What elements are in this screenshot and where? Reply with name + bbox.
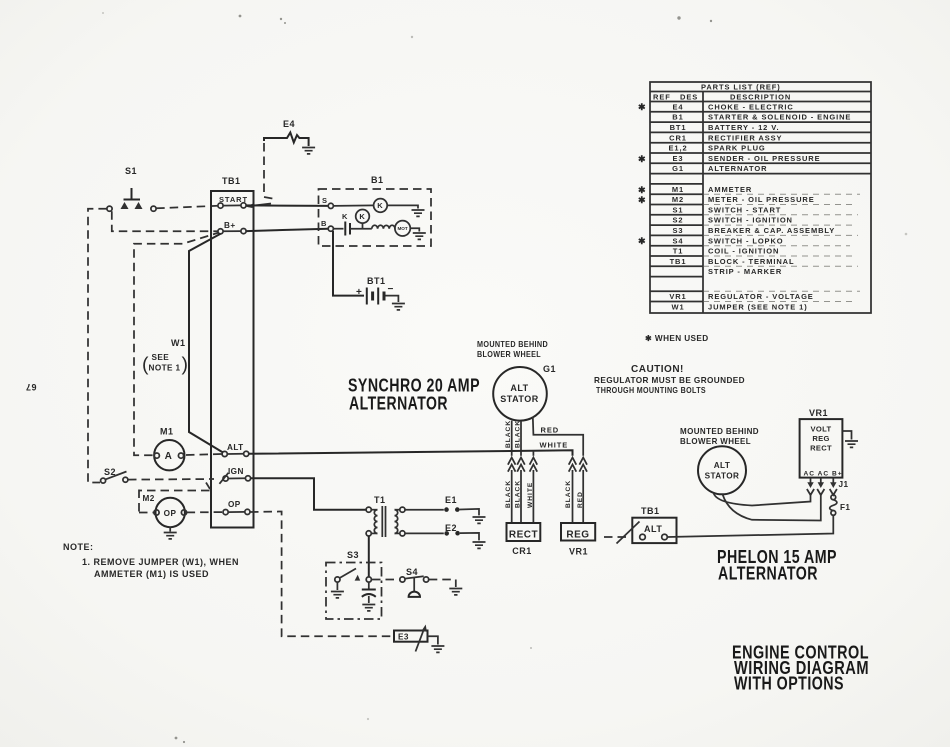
wire M2 to ground	[169, 527, 171, 531]
inductor of B1	[372, 225, 395, 228]
svg-text:THROUGH MOUNTING BOLTS: THROUGH MOUNTING BOLTS	[596, 386, 706, 395]
svg-text:K: K	[359, 212, 365, 221]
svg-text:REG: REG	[566, 529, 589, 540]
relay coil K of B1	[374, 199, 388, 213]
starter & solenoid B1 (dashed box)	[319, 189, 432, 246]
svg-text:M1: M1	[672, 185, 684, 194]
wire chevron to REG 2	[582, 470, 584, 523]
terminal S1 right	[151, 206, 156, 211]
wire M1 to B+ branch (dashed)	[134, 233, 219, 456]
label BLACK (upper 2)	[515, 420, 522, 448]
wire E4 to START (dashed)	[246, 143, 273, 208]
svg-text:B: B	[321, 219, 327, 228]
svg-text:✱: ✱	[638, 102, 646, 112]
resistor E4	[264, 133, 309, 147]
ground in B1 lower	[413, 233, 426, 239]
terminal B+	[218, 221, 246, 234]
svg-text:BLACK: BLACK	[505, 480, 512, 508]
svg-text:B+: B+	[224, 221, 236, 230]
svg-text:S3: S3	[347, 550, 359, 560]
wire TB1 B+ to B1 B	[246, 229, 328, 231]
svg-text:MOUNTED BEHIND: MOUNTED BEHIND	[680, 427, 759, 436]
oil pressure meter M2	[143, 494, 187, 527]
switch S4 (low oil pressure)	[400, 567, 429, 597]
svg-text:ALT: ALT	[510, 383, 528, 393]
wire F1 to phelon TB1 ALT	[667, 515, 833, 537]
wire TB1 START to B1 S	[246, 204, 328, 207]
wire G1 red lead	[533, 417, 583, 456]
label BLACK (upper 1)	[505, 420, 512, 448]
wire T1 primary to S3	[368, 536, 370, 577]
wire E2 to ground	[460, 533, 479, 541]
note text	[63, 542, 239, 579]
svg-text:MOUNTED BEHIND: MOUNTED BEHIND	[477, 340, 548, 349]
svg-text:AC AC B+: AC AC B+	[804, 471, 843, 478]
svg-text:E1: E1	[445, 495, 457, 505]
wire chevron to RECT 3	[532, 470, 534, 523]
wire chevron to RECT 2	[520, 470, 522, 523]
table header	[653, 83, 791, 102]
svg-text:G1: G1	[543, 364, 556, 374]
svg-text:BT1: BT1	[670, 123, 687, 132]
ignition coil T1	[366, 495, 405, 537]
wire M1 to ALT (dashed)	[186, 454, 222, 455]
fuse F1	[830, 493, 851, 515]
svg-text:REG: REG	[812, 434, 829, 443]
wire phelon stator lead 2	[723, 493, 821, 521]
regulator VR1 (synchro)	[561, 523, 595, 557]
breaker points of S3	[335, 569, 372, 583]
svg-text:STATOR: STATOR	[705, 472, 740, 481]
svg-text:STATOR: STATOR	[500, 394, 539, 404]
svg-text:BLACK: BLACK	[505, 420, 512, 448]
svg-text:K: K	[377, 201, 383, 210]
svg-text:ALT: ALT	[644, 524, 662, 534]
svg-text:+: +	[356, 287, 362, 298]
svg-text:SWITCH - LOPKO: SWITCH - LOPKO	[708, 236, 784, 245]
terminal block TB1 (phelon)	[617, 506, 677, 544]
ground at S3 points	[331, 592, 344, 598]
table stars	[638, 102, 646, 246]
wire S1 to TB1 B+ (dashed)	[112, 211, 218, 231]
ground at S3 capacitor	[362, 605, 375, 611]
spark plug E2	[444, 523, 460, 536]
wire S1 left to S2 (dashed, far left)	[88, 209, 107, 483]
wire battery to ground	[386, 296, 399, 302]
voltage regulator VR1 (phelon)	[800, 408, 843, 478]
terminal block TB1	[211, 191, 254, 528]
wire S to relay coil K	[333, 204, 374, 207]
SYNCHRO title	[348, 375, 480, 414]
svg-text:RECT: RECT	[509, 530, 538, 541]
ground in B1 upper	[412, 210, 425, 216]
label RED	[541, 426, 560, 435]
svg-text:67: 67	[25, 382, 36, 392]
wire E3 to ground	[428, 636, 438, 644]
svg-text:W1: W1	[671, 302, 684, 311]
switch S2 (ignition)	[101, 467, 128, 483]
ground at E3	[431, 646, 444, 652]
wire B1 B to battery BT1	[333, 231, 364, 296]
svg-text:WITH OPTIONS: WITH OPTIONS	[734, 673, 844, 694]
node S of B1	[322, 196, 333, 208]
wire phelon stator lead 1	[714, 493, 811, 506]
svg-text:MOT: MOT	[397, 226, 407, 231]
main title	[732, 642, 869, 694]
svg-text:W1: W1	[171, 338, 186, 348]
capacitor of S3	[362, 582, 376, 603]
svg-text:S2: S2	[673, 216, 684, 225]
svg-text:METER - OIL PRESSURE: METER - OIL PRESSURE	[708, 195, 815, 204]
motor MOT of B1	[395, 221, 410, 236]
svg-text:T1: T1	[374, 495, 386, 505]
svg-text:B1: B1	[672, 113, 683, 122]
page number 67 (rotated)	[25, 382, 36, 392]
svg-text:VR1: VR1	[809, 408, 828, 418]
alternator stator (phelon)	[680, 427, 759, 494]
svg-text:E3: E3	[398, 633, 409, 642]
label BLACK (REG)	[565, 480, 572, 508]
svg-text:S1: S1	[673, 205, 684, 214]
when used note	[645, 334, 709, 343]
svg-text:BLACK: BLACK	[515, 420, 522, 448]
svg-text:BLOWER WHEEL: BLOWER WHEEL	[477, 350, 541, 359]
svg-text:S4: S4	[673, 236, 684, 245]
svg-text:): )	[182, 354, 189, 376]
breaker & cap assembly S3 (dash-dot box)	[326, 563, 382, 620]
svg-text:M1: M1	[160, 427, 174, 437]
svg-text:WHITE: WHITE	[540, 441, 569, 450]
svg-text:BLACK: BLACK	[565, 480, 572, 508]
svg-text:VR1: VR1	[569, 547, 588, 557]
svg-text:TB1: TB1	[222, 176, 241, 186]
svg-text:CR1: CR1	[512, 546, 532, 556]
svg-text:STRIP - MARKER: STRIP - MARKER	[708, 267, 782, 276]
wire MOT to ground	[410, 228, 420, 231]
ground at E2	[473, 542, 486, 548]
svg-text:ALTERNATOR: ALTERNATOR	[349, 393, 448, 414]
wire E1 to ground	[460, 509, 479, 516]
svg-text:WHITE: WHITE	[527, 482, 534, 508]
wire S1 right to TB1 START (dashed)	[156, 206, 218, 209]
ground at M2	[164, 533, 177, 539]
wire S3 points to ground	[336, 582, 338, 590]
terminal OP	[223, 500, 250, 515]
wire VR1 to ground	[842, 431, 851, 440]
svg-text:VR1: VR1	[669, 292, 686, 301]
svg-text:J1: J1	[839, 480, 849, 489]
svg-text:S1: S1	[125, 166, 137, 176]
svg-text:E3: E3	[673, 154, 684, 163]
wire T1 to spark plug E1	[405, 509, 444, 511]
svg-text:COIL - IGNITION: COIL - IGNITION	[708, 247, 779, 256]
ground at E4	[302, 148, 315, 154]
wire coil K to ground	[387, 205, 418, 208]
svg-text:E1,2: E1,2	[668, 144, 687, 153]
wire OP to sender E3 (dashed)	[250, 512, 392, 637]
switch S1 (start pushbutton)	[125, 166, 137, 176]
ground at BT1	[392, 304, 405, 310]
wire S4 to ground (dashed)	[429, 580, 456, 588]
contact K of B1 (bars)	[345, 222, 350, 236]
terminal START	[218, 195, 248, 208]
svg-text:RED: RED	[541, 426, 560, 435]
svg-text:AMMETER (M1) IS USED: AMMETER (M1) IS USED	[94, 569, 209, 579]
svg-text:✱: ✱	[638, 154, 646, 164]
svg-text:BT1: BT1	[367, 276, 386, 286]
caution note	[594, 364, 745, 395]
svg-text:OP: OP	[164, 509, 177, 518]
svg-text:SWITCH - START: SWITCH - START	[708, 205, 781, 214]
wire S3 to S4 (dashed)	[372, 579, 400, 581]
table rows	[668, 102, 851, 311]
node B of B1	[321, 219, 333, 231]
svg-text:SWITCH - IGNITION: SWITCH - IGNITION	[708, 216, 793, 225]
parts list table	[650, 82, 871, 313]
wire G1 black lead 1	[511, 421, 513, 456]
svg-text:✱: ✱	[638, 236, 646, 246]
svg-text:✱: ✱	[638, 195, 646, 205]
table faint row lines (description col)	[703, 194, 860, 301]
svg-text:BLOCK - TERMINAL: BLOCK - TERMINAL	[708, 257, 794, 266]
wire T1 to spark plug E2	[405, 532, 444, 534]
svg-text:DES: DES	[680, 93, 698, 102]
svg-text:ALTERNATOR: ALTERNATOR	[718, 563, 818, 584]
svg-text:M2: M2	[143, 494, 155, 503]
wire contact to inductor	[350, 228, 372, 230]
svg-text:REGULATOR MUST BE GROUNDED: REGULATOR MUST BE GROUNDED	[594, 376, 745, 385]
svg-text:BLOWER WHEEL: BLOWER WHEEL	[680, 437, 751, 446]
svg-text:✱ WHEN USED: ✱ WHEN USED	[645, 334, 709, 343]
oil pressure sender E3	[394, 625, 428, 652]
svg-text:BATTERY - 12 V.: BATTERY - 12 V.	[708, 123, 779, 132]
alternator G1 (synchro stator)	[477, 340, 556, 421]
wire M2 to OP (dashed)	[187, 511, 223, 513]
svg-text:IGN: IGN	[228, 467, 244, 476]
svg-text:ALT: ALT	[227, 443, 244, 452]
svg-text:VOLT: VOLT	[811, 425, 832, 434]
svg-text:STARTER & SOLENOID - ENGINE: STARTER & SOLENOID - ENGINE	[708, 113, 851, 122]
battery BT1	[356, 276, 394, 305]
terminal S1 left	[107, 206, 112, 211]
node J1	[839, 480, 849, 489]
wire chevron to REG 1	[572, 470, 574, 523]
svg-text:TB1: TB1	[670, 257, 687, 266]
svg-text:RECT: RECT	[810, 444, 832, 453]
wire stub left of phelon TB1 (dashed)	[604, 536, 631, 538]
rectifier CR1	[507, 523, 541, 556]
label WHITE	[540, 441, 569, 450]
spark plug E1	[444, 495, 459, 512]
ground at E1	[473, 517, 486, 523]
svg-text:SENDER - OIL PRESSURE: SENDER - OIL PRESSURE	[708, 154, 821, 163]
wire white branch to rectifier	[532, 451, 534, 456]
wire IGN to coil T1	[251, 478, 366, 509]
svg-text:A: A	[165, 451, 173, 462]
terminal IGN	[223, 467, 251, 481]
wire ALT to regulator (white line)	[249, 450, 573, 456]
connector chevrons (5 wires)	[508, 458, 587, 472]
svg-text:NOTE 1: NOTE 1	[149, 364, 181, 373]
svg-text:CAUTION!: CAUTION!	[631, 364, 684, 375]
svg-text:OP: OP	[228, 500, 241, 509]
svg-text:PARTS LIST (REF): PARTS LIST (REF)	[701, 83, 781, 92]
svg-text:✱: ✱	[638, 185, 646, 195]
svg-text:E4: E4	[673, 102, 684, 111]
connector chevrons under VR1 (down)	[807, 478, 837, 495]
svg-text:DESCRIPTION: DESCRIPTION	[730, 92, 791, 101]
svg-text:S3: S3	[673, 226, 684, 235]
ammeter M1	[154, 427, 184, 471]
svg-text:NOTE:: NOTE:	[63, 542, 94, 552]
svg-text:F1: F1	[840, 503, 850, 512]
svg-text:K: K	[342, 212, 348, 221]
svg-text:S4: S4	[406, 567, 418, 577]
svg-text:−: −	[388, 284, 394, 295]
wire G1 black lead 2	[520, 421, 522, 456]
svg-text:E4: E4	[283, 119, 295, 129]
svg-text:CHOKE - ELECTRIC: CHOKE - ELECTRIC	[708, 102, 794, 111]
label WHITE (lower)	[527, 482, 534, 508]
ground at S4	[449, 589, 462, 595]
svg-text:SPARK PLUG: SPARK PLUG	[708, 144, 766, 153]
svg-text:SEE: SEE	[152, 353, 170, 362]
svg-text:CR1: CR1	[669, 133, 687, 142]
label BLACK (lower 1)	[505, 480, 512, 508]
relay coil K2 of B1	[356, 210, 370, 229]
label RED (REG)	[577, 491, 584, 508]
svg-text:B1: B1	[371, 175, 384, 185]
svg-text:REGULATOR - VOLTAGE: REGULATOR - VOLTAGE	[708, 292, 814, 301]
svg-text:ALT: ALT	[714, 461, 731, 470]
svg-text:REF: REF	[653, 93, 671, 102]
svg-text:(: (	[142, 354, 149, 376]
svg-text:JUMPER (SEE NOTE 1): JUMPER (SEE NOTE 1)	[708, 302, 808, 311]
choke E4 label	[283, 119, 295, 129]
svg-text:TB1: TB1	[641, 506, 660, 516]
svg-text:ALTERNATOR: ALTERNATOR	[708, 164, 767, 173]
jumper W1 from B+ to ALT	[189, 234, 223, 453]
ground at VR1	[845, 441, 858, 447]
label BLACK (lower 2)	[515, 480, 522, 508]
terminal ALT	[222, 443, 249, 457]
wire M2 feed from IGN line (dashed)	[139, 483, 210, 514]
svg-text:S: S	[322, 196, 328, 205]
svg-text:BLACK: BLACK	[515, 480, 522, 508]
svg-text:T1: T1	[673, 247, 684, 256]
svg-text:AMMETER: AMMETER	[708, 185, 752, 194]
wire S2 to IGN (dashed)	[128, 473, 228, 484]
svg-text:1. REMOVE JUMPER (W1), WHEN: 1. REMOVE JUMPER (W1), WHEN	[82, 557, 239, 567]
wire chevron to RECT 1	[511, 470, 513, 523]
PHELON title	[717, 546, 837, 584]
svg-text:M2: M2	[672, 195, 684, 204]
svg-text:RED: RED	[577, 491, 584, 508]
svg-text:G1: G1	[672, 164, 684, 173]
svg-text:RECTIFIER ASSY: RECTIFIER ASSY	[708, 133, 782, 142]
svg-text:BREAKER & CAP. ASSEMBLY: BREAKER & CAP. ASSEMBLY	[708, 226, 835, 235]
wire B to contact K	[333, 228, 343, 230]
